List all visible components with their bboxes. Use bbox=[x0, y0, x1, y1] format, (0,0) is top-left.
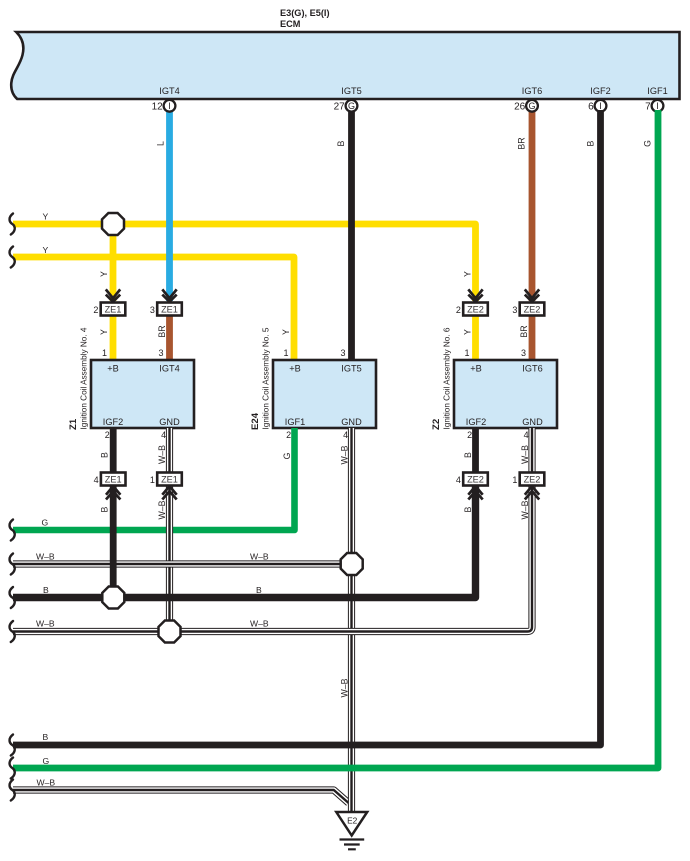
svg-text:Z1: Z1 bbox=[68, 418, 79, 430]
svg-text:E3(G), E5(I): E3(G), E5(I) bbox=[280, 8, 330, 18]
wire BR ZE2 to Z2 IGT6 bbox=[529, 316, 536, 361]
svg-text:W–B: W–B bbox=[250, 619, 269, 629]
svg-text:W–B: W–B bbox=[340, 445, 350, 464]
svg-text:B: B bbox=[463, 452, 473, 458]
svg-text:B: B bbox=[43, 732, 49, 742]
svg-text:IGT6: IGT6 bbox=[522, 86, 542, 96]
wire break squiggle (Y bus 1) bbox=[10, 214, 15, 235]
wire Y ZE1 to Z1 +B bbox=[110, 316, 117, 361]
svg-text:IGT5: IGT5 bbox=[341, 86, 361, 96]
svg-text:4: 4 bbox=[161, 430, 166, 440]
wire W-B Z1 GND ZE1 to splice bbox=[166, 486, 173, 632]
svg-text:IGF2: IGF2 bbox=[590, 86, 610, 96]
svg-text:ZE2: ZE2 bbox=[524, 475, 541, 485]
svg-text:IGF2: IGF2 bbox=[103, 417, 123, 427]
svg-text:GND: GND bbox=[341, 417, 362, 427]
svg-text:GND: GND bbox=[159, 417, 180, 427]
svg-text:Y: Y bbox=[43, 212, 49, 222]
svg-text:3: 3 bbox=[340, 348, 345, 358]
connector arrows into ZE2 pin2 bbox=[468, 289, 482, 301]
svg-text:ZE2: ZE2 bbox=[467, 475, 484, 485]
svg-text:IGF1: IGF1 bbox=[647, 86, 667, 96]
splice junction B bus / Z1 IGF2 bbox=[102, 587, 124, 609]
svg-text:ECM: ECM bbox=[280, 19, 301, 29]
connector arrows into ZE1 pin2 bbox=[106, 289, 120, 301]
wire W-B Z2 GND ZE2 to W-B bus lower bbox=[13, 486, 532, 632]
wire B Z1 IGF2 to ZE1 bbox=[110, 428, 117, 473]
svg-text:2: 2 bbox=[467, 430, 472, 440]
wire W-B Z2 GND to ZE2 bbox=[528, 428, 535, 473]
svg-text:W–B: W–B bbox=[340, 678, 350, 697]
svg-text:3: 3 bbox=[150, 305, 155, 315]
svg-text:1: 1 bbox=[150, 475, 155, 485]
svg-text:2: 2 bbox=[286, 430, 291, 440]
svg-text:I: I bbox=[599, 101, 602, 111]
connector arrows into ZE1 pin3 bbox=[162, 289, 176, 301]
svg-text:Ignition Coil Assembly No. 5: Ignition Coil Assembly No. 5 bbox=[262, 327, 271, 429]
ignition coil Z1 box bbox=[91, 360, 194, 428]
svg-text:+B: +B bbox=[107, 364, 119, 374]
junction connector ZE1 pin 4 bbox=[94, 473, 126, 486]
splice junction W-B bus / Z1 GND bbox=[159, 621, 181, 643]
junction connector ZE1 pin 1 bbox=[150, 473, 182, 486]
connector arrows into ZE2 pin3 bbox=[525, 289, 539, 301]
wire L (blue) IGT4 bbox=[166, 110, 173, 301]
svg-text:G: G bbox=[43, 756, 50, 766]
wire B Z1 ZE1 to splice bbox=[110, 486, 117, 598]
svg-text:W–B: W–B bbox=[157, 445, 167, 464]
splice junction Y bus / Z1 +B bbox=[102, 213, 124, 235]
svg-text:4: 4 bbox=[524, 430, 529, 440]
svg-text:27: 27 bbox=[334, 101, 346, 112]
wire B IGT5 bbox=[348, 110, 355, 360]
svg-text:Y: Y bbox=[99, 271, 109, 277]
svg-text:26: 26 bbox=[514, 101, 526, 112]
wire break squiggle (W-B bus 2) bbox=[10, 621, 15, 642]
wire B Z2 IGF2 to ZE2 bbox=[472, 428, 479, 473]
svg-text:BR: BR bbox=[519, 325, 529, 337]
wire W-B W-B bus upper bbox=[13, 560, 352, 567]
wire B: ECM IGF2 to bottom bus bbox=[13, 110, 601, 745]
svg-text:1: 1 bbox=[283, 348, 288, 358]
svg-text:IGF1: IGF1 bbox=[285, 417, 305, 427]
junction connector ZE2 pin 3 bbox=[512, 303, 544, 316]
svg-text:1: 1 bbox=[464, 348, 469, 358]
svg-text:W–B: W–B bbox=[250, 552, 269, 562]
svg-text:GND: GND bbox=[522, 417, 543, 427]
svg-text:Ignition Coil Assembly No. 4: Ignition Coil Assembly No. 4 bbox=[80, 327, 89, 429]
svg-text:+B: +B bbox=[289, 364, 301, 374]
svg-text:6: 6 bbox=[588, 101, 594, 112]
svg-text:3: 3 bbox=[158, 348, 163, 358]
svg-text:W–B: W–B bbox=[157, 500, 167, 519]
wire B bus: Z2 ZE2 down and left bbox=[13, 486, 476, 598]
svg-text:E2: E2 bbox=[347, 816, 358, 826]
ground E2 bbox=[336, 812, 367, 849]
svg-text:ZE2: ZE2 bbox=[467, 305, 484, 315]
svg-text:3: 3 bbox=[521, 348, 526, 358]
ignition coil Z2 box bbox=[454, 360, 557, 428]
svg-text:+B: +B bbox=[470, 364, 482, 374]
wire break squiggle (W-B bottom) bbox=[10, 780, 15, 801]
wire Y ZE2 to Z2 +B bbox=[472, 316, 479, 361]
connector arrows out of ZE1 pin1 bbox=[162, 486, 176, 499]
svg-text:2: 2 bbox=[93, 305, 98, 315]
connector arrows out of ZE1 pin4 bbox=[106, 486, 120, 499]
svg-text:7: 7 bbox=[645, 101, 651, 112]
ECM pin 27 (IGT5) bbox=[334, 100, 358, 112]
svg-text:IGT6: IGT6 bbox=[522, 364, 542, 374]
svg-text:1: 1 bbox=[102, 348, 107, 358]
svg-text:G: G bbox=[643, 140, 653, 147]
svg-text:B: B bbox=[256, 585, 262, 595]
svg-text:Y: Y bbox=[43, 245, 49, 255]
wire break squiggle (B bus) bbox=[10, 587, 15, 608]
wire W-B E24 GND to E2 ground bbox=[348, 428, 355, 812]
wire break squiggle (G bus) bbox=[10, 520, 15, 541]
svg-text:ZE1: ZE1 bbox=[105, 305, 122, 315]
svg-text:G: G bbox=[42, 518, 49, 528]
svg-text:BR: BR bbox=[517, 137, 527, 149]
svg-text:2: 2 bbox=[105, 430, 110, 440]
svg-text:E24: E24 bbox=[250, 412, 261, 430]
svg-text:I: I bbox=[656, 101, 659, 111]
splice junction W-B bus / E24 GND bbox=[341, 553, 363, 575]
wire W-B W-B bus to E2 bbox=[13, 790, 349, 803]
wire G: E24 IGF1 down and left bbox=[13, 428, 295, 530]
svg-text:IGT4: IGT4 bbox=[159, 86, 179, 96]
svg-text:G: G bbox=[282, 452, 292, 459]
svg-text:I: I bbox=[168, 101, 171, 111]
wire BR ZE1 to Z1 IGT4 bbox=[166, 316, 173, 361]
svg-text:1: 1 bbox=[512, 475, 517, 485]
svg-text:3: 3 bbox=[512, 305, 517, 315]
wire break squiggle (G bottom) bbox=[10, 758, 15, 779]
svg-text:B: B bbox=[336, 140, 346, 146]
junction connector ZE1 pin 3 bbox=[150, 303, 182, 316]
svg-text:Y: Y bbox=[463, 271, 473, 277]
ECM pin 7 (IGF1) bbox=[645, 100, 663, 112]
svg-text:ZE1: ZE1 bbox=[161, 305, 178, 315]
connector arrows out of ZE2 pin4 bbox=[468, 486, 482, 499]
svg-text:ZE1: ZE1 bbox=[161, 475, 178, 485]
svg-text:Ignition Coil Assembly No. 6: Ignition Coil Assembly No. 6 bbox=[443, 327, 452, 429]
svg-text:W–B: W–B bbox=[37, 778, 56, 788]
wire BR IGT6 bbox=[529, 110, 536, 301]
ignition coil E24 box bbox=[273, 360, 376, 428]
junction connector ZE2 pin 4 bbox=[456, 473, 488, 486]
svg-text:L: L bbox=[156, 141, 166, 146]
svg-text:W–B: W–B bbox=[36, 552, 55, 562]
svg-text:W–B: W–B bbox=[520, 445, 530, 464]
wire break squiggle (Y bus 2) bbox=[10, 247, 15, 268]
svg-text:G: G bbox=[348, 101, 355, 111]
wire: +B feed Y bus upper bbox=[13, 224, 476, 301]
svg-text:B: B bbox=[586, 140, 596, 146]
svg-text:W–B: W–B bbox=[520, 500, 530, 519]
junction connector ZE2 pin 2 bbox=[456, 303, 488, 316]
svg-text:2: 2 bbox=[456, 305, 461, 315]
ECM E3/E5 box bbox=[11, 8, 679, 99]
svg-text:IGT5: IGT5 bbox=[341, 364, 361, 374]
wire: Y drop from splice to ZE1 bbox=[110, 224, 117, 301]
svg-text:Z2: Z2 bbox=[431, 419, 442, 430]
svg-text:12: 12 bbox=[152, 101, 164, 112]
svg-text:Y: Y bbox=[281, 329, 291, 335]
svg-text:4: 4 bbox=[456, 475, 461, 485]
svg-text:G: G bbox=[528, 101, 535, 111]
wire W-B Z1 GND to ZE1 bbox=[166, 428, 173, 473]
ECM pin 6 (IGF2) bbox=[588, 100, 606, 112]
svg-text:B: B bbox=[100, 452, 110, 458]
svg-text:W–B: W–B bbox=[36, 619, 55, 629]
svg-text:BR: BR bbox=[157, 325, 167, 337]
svg-text:Y: Y bbox=[463, 329, 473, 335]
svg-text:4: 4 bbox=[343, 430, 348, 440]
junction connector ZE1 pin 2 bbox=[93, 303, 125, 316]
wire: +B feed Y bus lower bbox=[13, 257, 294, 360]
wire G: ECM IGF1 to bottom bus bbox=[13, 110, 658, 768]
svg-text:ZE1: ZE1 bbox=[105, 475, 122, 485]
ECM pin 12 (IGT4) bbox=[152, 100, 176, 112]
svg-text:IGT4: IGT4 bbox=[159, 364, 179, 374]
connector arrows out of ZE2 pin1 bbox=[525, 486, 539, 499]
svg-text:IGF2: IGF2 bbox=[466, 417, 486, 427]
svg-text:B: B bbox=[43, 585, 49, 595]
wire break squiggle (B bottom) bbox=[10, 735, 15, 756]
svg-text:B: B bbox=[100, 506, 110, 512]
svg-text:ZE2: ZE2 bbox=[524, 305, 541, 315]
svg-text:B: B bbox=[463, 506, 473, 512]
wire break squiggle (W-B bus 1) bbox=[10, 554, 15, 575]
junction connector ZE2 pin 1 bbox=[512, 473, 544, 486]
svg-text:Y: Y bbox=[99, 329, 109, 335]
ECM pin 26 (IGT6) bbox=[514, 100, 538, 112]
svg-text:4: 4 bbox=[94, 475, 99, 485]
